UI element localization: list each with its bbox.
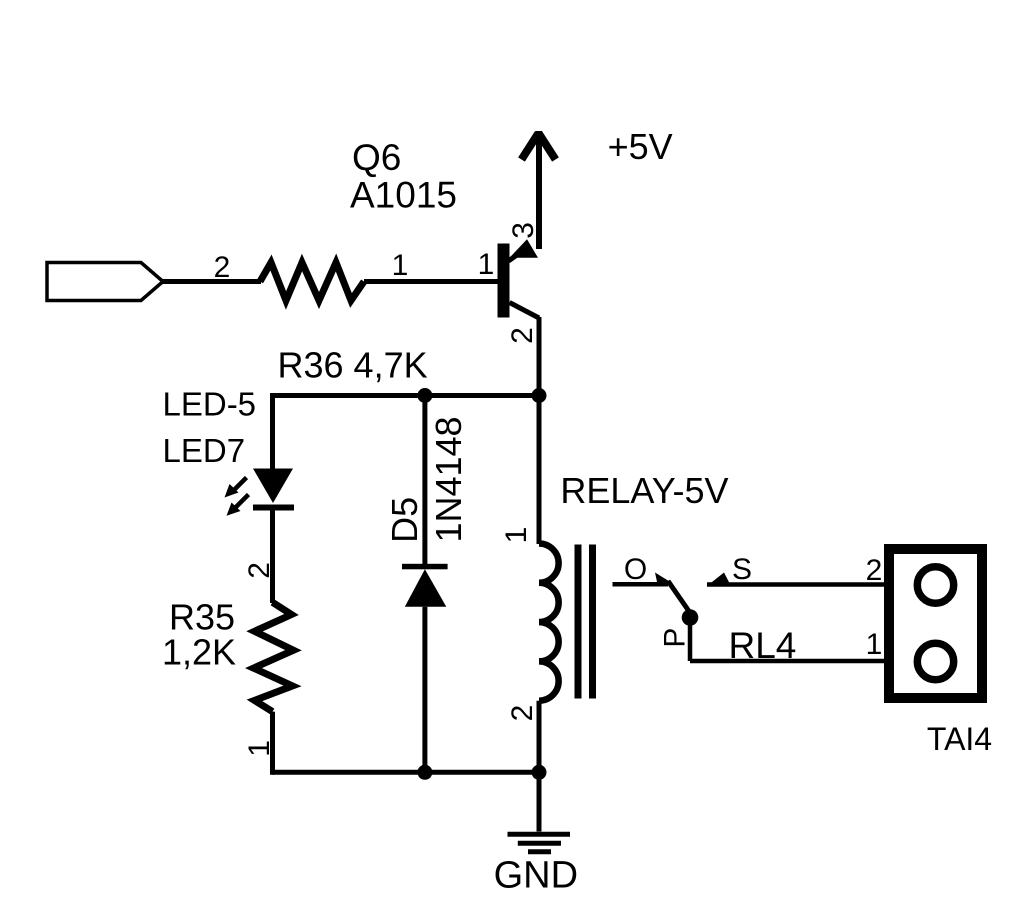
connector TAI4 body <box>889 549 982 698</box>
svg-text:3: 3 <box>507 222 540 239</box>
wire R35 to bottom rail <box>270 712 275 775</box>
ground bar 2 <box>518 841 561 846</box>
svg-text:1,2K: 1,2K <box>162 632 236 673</box>
svg-text:2: 2 <box>506 705 539 722</box>
resistor R35 <box>254 602 294 711</box>
wire to ground <box>537 772 542 831</box>
svg-text:RL4: RL4 <box>729 625 797 666</box>
wire pole to TAI4 pin 1 <box>690 659 917 664</box>
svg-text:2: 2 <box>866 554 883 587</box>
diode D5 triangle <box>405 569 447 607</box>
svg-text:2: 2 <box>214 251 231 284</box>
svg-text:1: 1 <box>866 628 883 661</box>
svg-text:1: 1 <box>500 527 533 544</box>
wire node to relay coil <box>537 396 542 545</box>
relay RL4 coil <box>539 544 559 701</box>
svg-text:1N4148: 1N4148 <box>428 416 469 542</box>
relay core line 2 <box>589 545 596 699</box>
svg-text:O: O <box>624 553 647 586</box>
svg-text:TAI4: TAI4 <box>927 721 992 757</box>
svg-text:S: S <box>732 553 752 586</box>
switch lever <box>668 581 690 612</box>
wire resistor to base <box>364 279 498 284</box>
switch lever arrow <box>655 573 672 587</box>
wire top rail to diode D5 <box>422 396 427 565</box>
wire collector to node <box>537 317 542 396</box>
ground bar 1 <box>508 832 571 837</box>
connector TAI4 pin 2 circle <box>917 567 953 603</box>
junction dot bottom D5 <box>417 765 432 780</box>
connector tag (input flag) <box>47 263 163 301</box>
ground bar 3 <box>528 849 551 854</box>
svg-text:Q6: Q6 <box>352 137 401 178</box>
+5V power arrow <box>522 133 556 160</box>
transistor Q6 emitter arrow <box>510 239 539 258</box>
wire S contact to TAI4 pin 2 <box>707 582 917 587</box>
bottom rail wire <box>273 770 540 775</box>
transistor Q6 base bar <box>498 244 510 318</box>
svg-text:2: 2 <box>243 562 276 579</box>
LED D7 cathode bar <box>253 505 294 511</box>
LED light arrow 1 <box>225 478 247 498</box>
svg-text:LED-5: LED-5 <box>163 386 257 423</box>
switch pole dot <box>682 609 699 626</box>
wire tag to resistor R36 <box>163 279 261 284</box>
wire top rail to LED <box>270 393 275 469</box>
svg-text:1: 1 <box>243 740 276 757</box>
junction dot bottom GND <box>532 765 547 780</box>
connector TAI4 pin 1 circle <box>917 643 953 679</box>
top rail wire <box>273 393 540 398</box>
svg-text:A1015: A1015 <box>350 175 457 216</box>
switch contact S arrow <box>707 573 731 587</box>
svg-text:LED7: LED7 <box>163 432 246 469</box>
svg-text:R36 4,7K: R36 4,7K <box>278 345 428 386</box>
svg-text:1: 1 <box>478 248 495 281</box>
transistor Q6 collector line <box>510 303 540 319</box>
svg-text:D5: D5 <box>384 497 425 543</box>
svg-text:GND: GND <box>494 854 578 896</box>
switch contact O wire <box>613 582 669 587</box>
junction dot top collector <box>532 388 547 403</box>
wire emitter to +5V arrow <box>536 131 542 249</box>
wire pole down <box>688 618 693 662</box>
svg-text:P: P <box>659 628 692 648</box>
relay core line 1 <box>575 545 582 699</box>
wire coil to bottom rail <box>537 701 542 773</box>
svg-text:+5V: +5V <box>608 126 673 167</box>
svg-text:RELAY-5V: RELAY-5V <box>560 470 728 511</box>
transistor Q6 emitter line <box>509 250 525 261</box>
diode D5 cathode bar <box>402 564 448 570</box>
junction dot top D5 <box>417 388 432 403</box>
svg-text:2: 2 <box>506 327 539 344</box>
resistor R36 <box>260 263 364 301</box>
LED D7 triangle <box>253 469 293 504</box>
wire diode D5 to bottom rail <box>422 607 427 773</box>
svg-text:1: 1 <box>392 249 409 282</box>
LED light arrow 2 <box>227 495 249 516</box>
wire LED to R35 <box>270 509 275 603</box>
